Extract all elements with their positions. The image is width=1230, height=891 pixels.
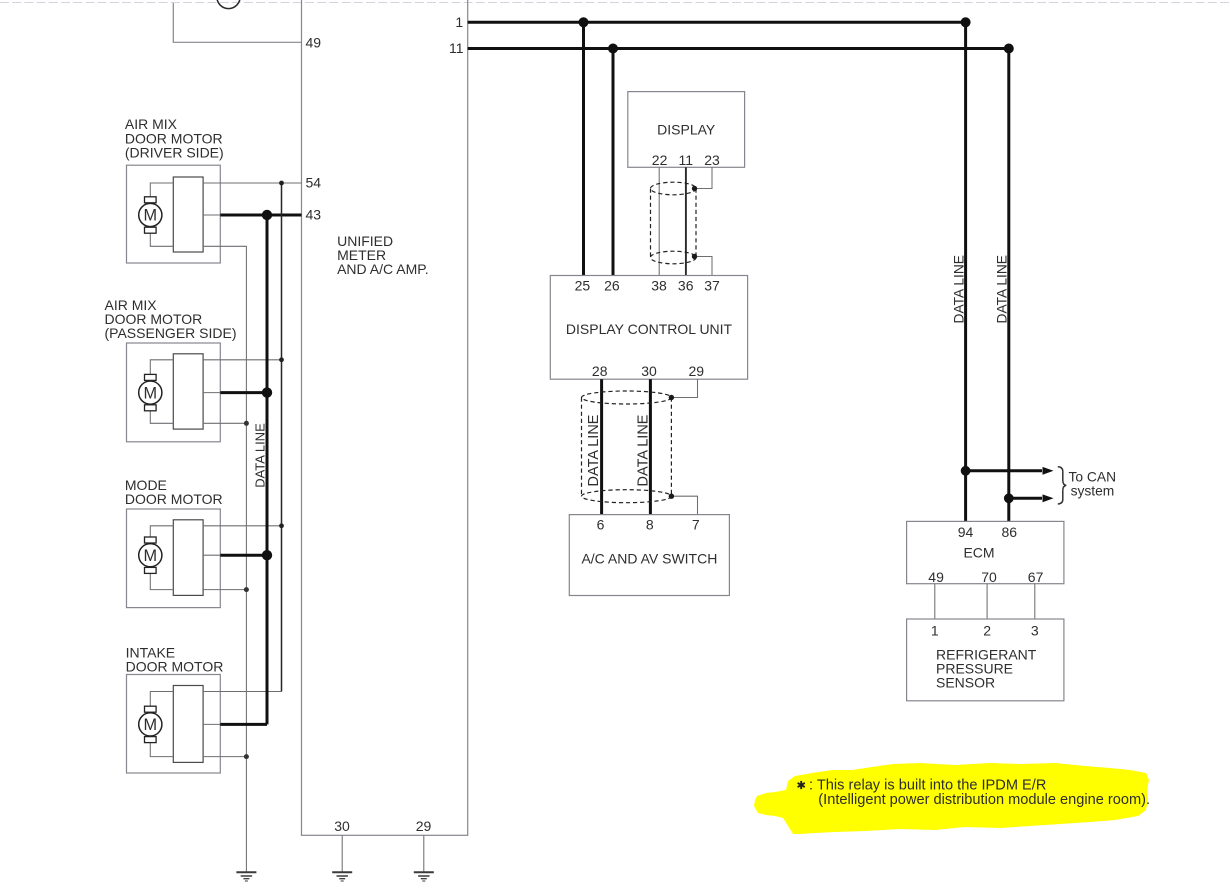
- note asterisk star: [798, 781, 805, 789]
- svg-text:(PASSENGER SIDE): (PASSENGER SIDE): [105, 325, 237, 341]
- display box: [628, 92, 745, 168]
- junction dot thick net passenger: [262, 387, 272, 397]
- wire: ECM 67 to sensor 3: [1034, 584, 1036, 619]
- motor M4 intake door motor: [127, 675, 221, 774]
- svg-text:22: 22: [652, 152, 668, 168]
- wire: ECM 49 to sensor 1: [934, 584, 936, 619]
- svg-text:36: 36: [678, 277, 694, 293]
- To CAN system label: [1069, 469, 1117, 498]
- wire: line 11 down to DCU pin 26: [612, 49, 615, 276]
- intake door motor label: [126, 644, 224, 674]
- svg-text:49: 49: [306, 35, 322, 51]
- junction dot CAN branch 1: [961, 466, 971, 476]
- wire: CAN data line to ECM pin 86: [1007, 49, 1010, 522]
- junction dot pin54 net top: [279, 181, 284, 186]
- air mix door motor (driver side) label: [125, 116, 224, 160]
- wire: intake motor bottom: [203, 756, 246, 758]
- motor M2 air mix door motor passenger side: [127, 343, 221, 442]
- wire: line 1 down to DCU pin 25: [582, 22, 585, 275]
- svg-text:DISPLAY: DISPLAY: [657, 122, 716, 138]
- junction dot ground rail mode: [244, 587, 249, 592]
- junction dot CAN branch 2: [1004, 493, 1014, 503]
- svg-text:1: 1: [931, 622, 939, 638]
- wire: pin 30 to ground: [341, 835, 343, 872]
- unified meter and a/c amp box U1: [302, 0, 468, 835]
- svg-text:37: 37: [704, 277, 720, 293]
- wire: driver motor to pin 43 (thick): [220, 214, 301, 217]
- svg-text:30: 30: [641, 363, 657, 379]
- ground (pin 30): [332, 872, 352, 881]
- refrigerant pressure sensor box: [907, 619, 1064, 701]
- brace for To CAN system: [1058, 467, 1067, 504]
- svg-text:DATA LINE: DATA LINE: [951, 255, 966, 324]
- note highlight (yellow marker): [754, 763, 1149, 834]
- svg-text:A/C AND AV SWITCH: A/C AND AV SWITCH: [581, 550, 717, 566]
- wire: driver motor mid gray stub: [203, 214, 220, 216]
- wire: display pin 11 to DCU pin 36: [685, 167, 687, 275]
- svg-text:6: 6: [597, 517, 605, 533]
- wire: mode motor top: [203, 525, 281, 527]
- wire: driver motor top to pin 54: [203, 182, 301, 184]
- wire: ECM 70 to sensor 2: [986, 584, 988, 619]
- wire: intake motor mid thick: [220, 723, 267, 726]
- wire: CAN data line to ECM pin 94: [964, 22, 967, 521]
- svg-text:7: 7: [692, 517, 700, 533]
- svg-text:M: M: [144, 716, 158, 734]
- svg-text:29: 29: [689, 363, 705, 379]
- wire: shield to DCU pin 37: [695, 257, 713, 276]
- svg-text:28: 28: [592, 363, 608, 379]
- svg-text:8: 8: [646, 517, 654, 533]
- svg-text:DATA LINE: DATA LINE: [635, 414, 651, 486]
- svg-text:1: 1: [455, 14, 463, 30]
- air mix door motor (passenger side) label: [105, 297, 237, 341]
- junction dot thick net mode: [262, 550, 272, 560]
- svg-text:94: 94: [958, 524, 974, 540]
- svg-text:38: 38: [651, 277, 667, 293]
- wire: CAN branch arrow 1: [966, 467, 1054, 475]
- junction dot pin54 net mode: [279, 523, 284, 528]
- svg-text:67: 67: [1028, 569, 1044, 585]
- svg-text:AND A/C AMP.: AND A/C AMP.: [337, 261, 429, 277]
- wire: thick data line vertical x=267: [266, 215, 269, 724]
- svg-text:M: M: [144, 547, 158, 565]
- wire: DCU pin 30 to A/C switch pin 8 (thick): [649, 379, 652, 514]
- wire: intake motor mid gray stub: [203, 723, 220, 725]
- wire: mode motor mid thick: [220, 554, 267, 557]
- junction dot thick net pin43: [262, 210, 272, 220]
- motor M1 air mix door motor driver side: [127, 165, 221, 263]
- svg-text:30: 30: [334, 818, 350, 834]
- wire: DCU pin 28 to A/C switch pin 6 (thick): [600, 379, 603, 514]
- svg-text:70: 70: [981, 569, 997, 585]
- junction dot ground rail passenger: [244, 421, 249, 426]
- svg-text:23: 23: [704, 152, 720, 168]
- wire: bus line 1: [468, 21, 966, 24]
- svg-text:ECM: ECM: [963, 545, 994, 561]
- svg-text:M: M: [144, 384, 158, 402]
- svg-text:54: 54: [306, 174, 322, 190]
- wire: pin 29 to ground: [423, 835, 425, 872]
- wire: mode motor bottom: [203, 589, 246, 591]
- shield junction dot bottom: [692, 254, 697, 259]
- wire: passenger motor mid thick: [220, 391, 267, 394]
- wire: display pin 22 to DCU pin 38: [658, 167, 660, 275]
- motor M3 mode door motor: [127, 509, 221, 608]
- junction on line 1 at x=965.6: [961, 17, 971, 27]
- junction dot pin54 net passenger: [279, 357, 284, 362]
- svg-text:DATA LINE: DATA LINE: [253, 423, 268, 488]
- display control unit box: [550, 276, 747, 380]
- svg-text:86: 86: [1002, 524, 1018, 540]
- svg-text:(Intelligent power distributio: (Intelligent power distribution module e…: [818, 792, 1150, 808]
- wire: bus line 11: [468, 47, 1009, 50]
- svg-text:2: 2: [983, 622, 991, 638]
- mode door motor label: [125, 477, 223, 507]
- ground (pin 29): [414, 872, 434, 881]
- svg-text:DOOR MOTOR: DOOR MOTOR: [126, 659, 224, 675]
- wire: DCU pin 29 to shield 2: [671, 379, 697, 397]
- svg-text:25: 25: [575, 277, 591, 293]
- wire: intake motor top: [203, 691, 281, 693]
- svg-text:DATA LINE: DATA LINE: [995, 255, 1010, 324]
- wire: thin line vertical x=281.5 (pin 54 net): [281, 183, 283, 692]
- svg-text:43: 43: [306, 206, 322, 222]
- shielded cable (dashed cylinder) display to DCU: [651, 182, 697, 264]
- svg-text:system: system: [1071, 484, 1115, 499]
- shield 2 junction dot top: [669, 395, 674, 400]
- shielded cable (dashed cylinder) DCU to A/C switch: [582, 391, 672, 503]
- wire: driver motor bottom to ground rail: [203, 246, 246, 872]
- wire: passenger motor bottom: [203, 422, 246, 424]
- svg-text:SENSOR: SENSOR: [936, 675, 995, 691]
- svg-text:49: 49: [928, 569, 944, 585]
- wire: CAN branch arrow 2: [1009, 494, 1054, 502]
- svg-text:11: 11: [679, 152, 694, 168]
- junction on line 11 at x=613: [608, 44, 618, 54]
- svg-text:3: 3: [1031, 622, 1039, 638]
- junction on line 11 at x=1008.8: [1004, 44, 1014, 54]
- ECM box: [907, 521, 1064, 585]
- junction dot ground rail intake: [244, 754, 249, 759]
- shield junction dot top: [692, 186, 697, 191]
- svg-text:M: M: [144, 207, 158, 225]
- svg-text:DOOR MOTOR: DOOR MOTOR: [125, 491, 223, 507]
- shield 2 junction dot bottom: [669, 494, 674, 499]
- junction on line 1 at x=583.5: [579, 17, 589, 27]
- ground (left motor rail): [236, 872, 256, 881]
- svg-text:DATA LINE: DATA LINE: [586, 414, 602, 486]
- wire: display pin 23 to shield: [695, 167, 713, 188]
- svg-text:(DRIVER SIDE): (DRIVER SIDE): [125, 145, 224, 161]
- wire: mode motor mid gray stub: [203, 554, 220, 556]
- wire: passenger motor top: [203, 359, 281, 361]
- wire: passenger motor mid gray stub: [203, 392, 220, 394]
- a/c and av switch box: [569, 515, 729, 596]
- svg-text:To CAN: To CAN: [1069, 469, 1117, 484]
- svg-text:26: 26: [604, 277, 620, 293]
- connector box (top left, cut off at page top): [173, 0, 301, 42]
- svg-text:DISPLAY CONTROL UNIT: DISPLAY CONTROL UNIT: [566, 321, 733, 337]
- svg-text:11: 11: [449, 40, 464, 56]
- svg-text:29: 29: [416, 818, 432, 834]
- wire: shield 2 to A/C switch pin 7: [671, 496, 697, 514]
